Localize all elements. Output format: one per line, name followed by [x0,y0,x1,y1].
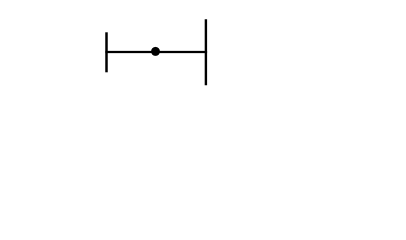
wire [105,51,207,53]
bus bar left [105,32,108,72]
node junction dot [151,47,160,56]
bus bar right [205,19,207,85]
